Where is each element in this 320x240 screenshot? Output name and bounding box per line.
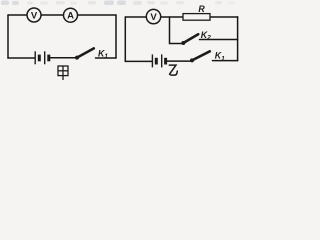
ammeter A (left circuit) xyxy=(64,8,78,22)
battery (right circuit) xyxy=(152,54,165,67)
label 乙 (circuit B caption) xyxy=(169,65,177,75)
svg-text:2: 2 xyxy=(206,35,211,42)
svg-text:V: V xyxy=(31,10,38,21)
wire: right circuit left edge xyxy=(124,17,126,61)
wire: right circuit right edge xyxy=(237,17,239,61)
svg-text:R: R xyxy=(198,4,205,14)
wire: right circuit top wire xyxy=(125,16,237,18)
svg-text:A: A xyxy=(67,11,74,22)
wire: left circuit left edge xyxy=(7,15,9,58)
svg-text:V: V xyxy=(150,12,157,23)
wire: right circuit switch K1 contact to right edge xyxy=(213,60,238,62)
wire: left circuit bottom wire (battery negative lead) xyxy=(8,57,35,59)
voltmeter V (left circuit) xyxy=(27,8,41,22)
wire: right circuit battery to switch K1 pivot xyxy=(166,60,191,62)
wire: left circuit switch K1 contact to right edge xyxy=(96,57,117,59)
battery (left circuit) xyxy=(35,51,49,64)
wire: branch from top wire down to switch K2 xyxy=(170,17,183,44)
wire: switch K2 contact to right edge xyxy=(200,39,238,41)
switch K2 (right circuit, parallel with R) xyxy=(181,30,211,45)
svg-text:1: 1 xyxy=(104,53,108,60)
switch K1 (left circuit) xyxy=(75,48,108,60)
voltmeter V (right circuit) xyxy=(146,9,160,23)
wire: left circuit battery to switch K1 pivot xyxy=(50,57,77,59)
wire: left circuit top wire xyxy=(8,14,116,16)
wire: left circuit right edge xyxy=(115,15,117,58)
wire: right circuit bottom wire (battery negative lead) xyxy=(125,60,152,62)
label 甲 (circuit A caption) xyxy=(58,66,68,80)
svg-text:1: 1 xyxy=(221,55,225,62)
switch K1 (right circuit) xyxy=(190,51,225,63)
resistor R (right circuit) xyxy=(183,4,210,20)
